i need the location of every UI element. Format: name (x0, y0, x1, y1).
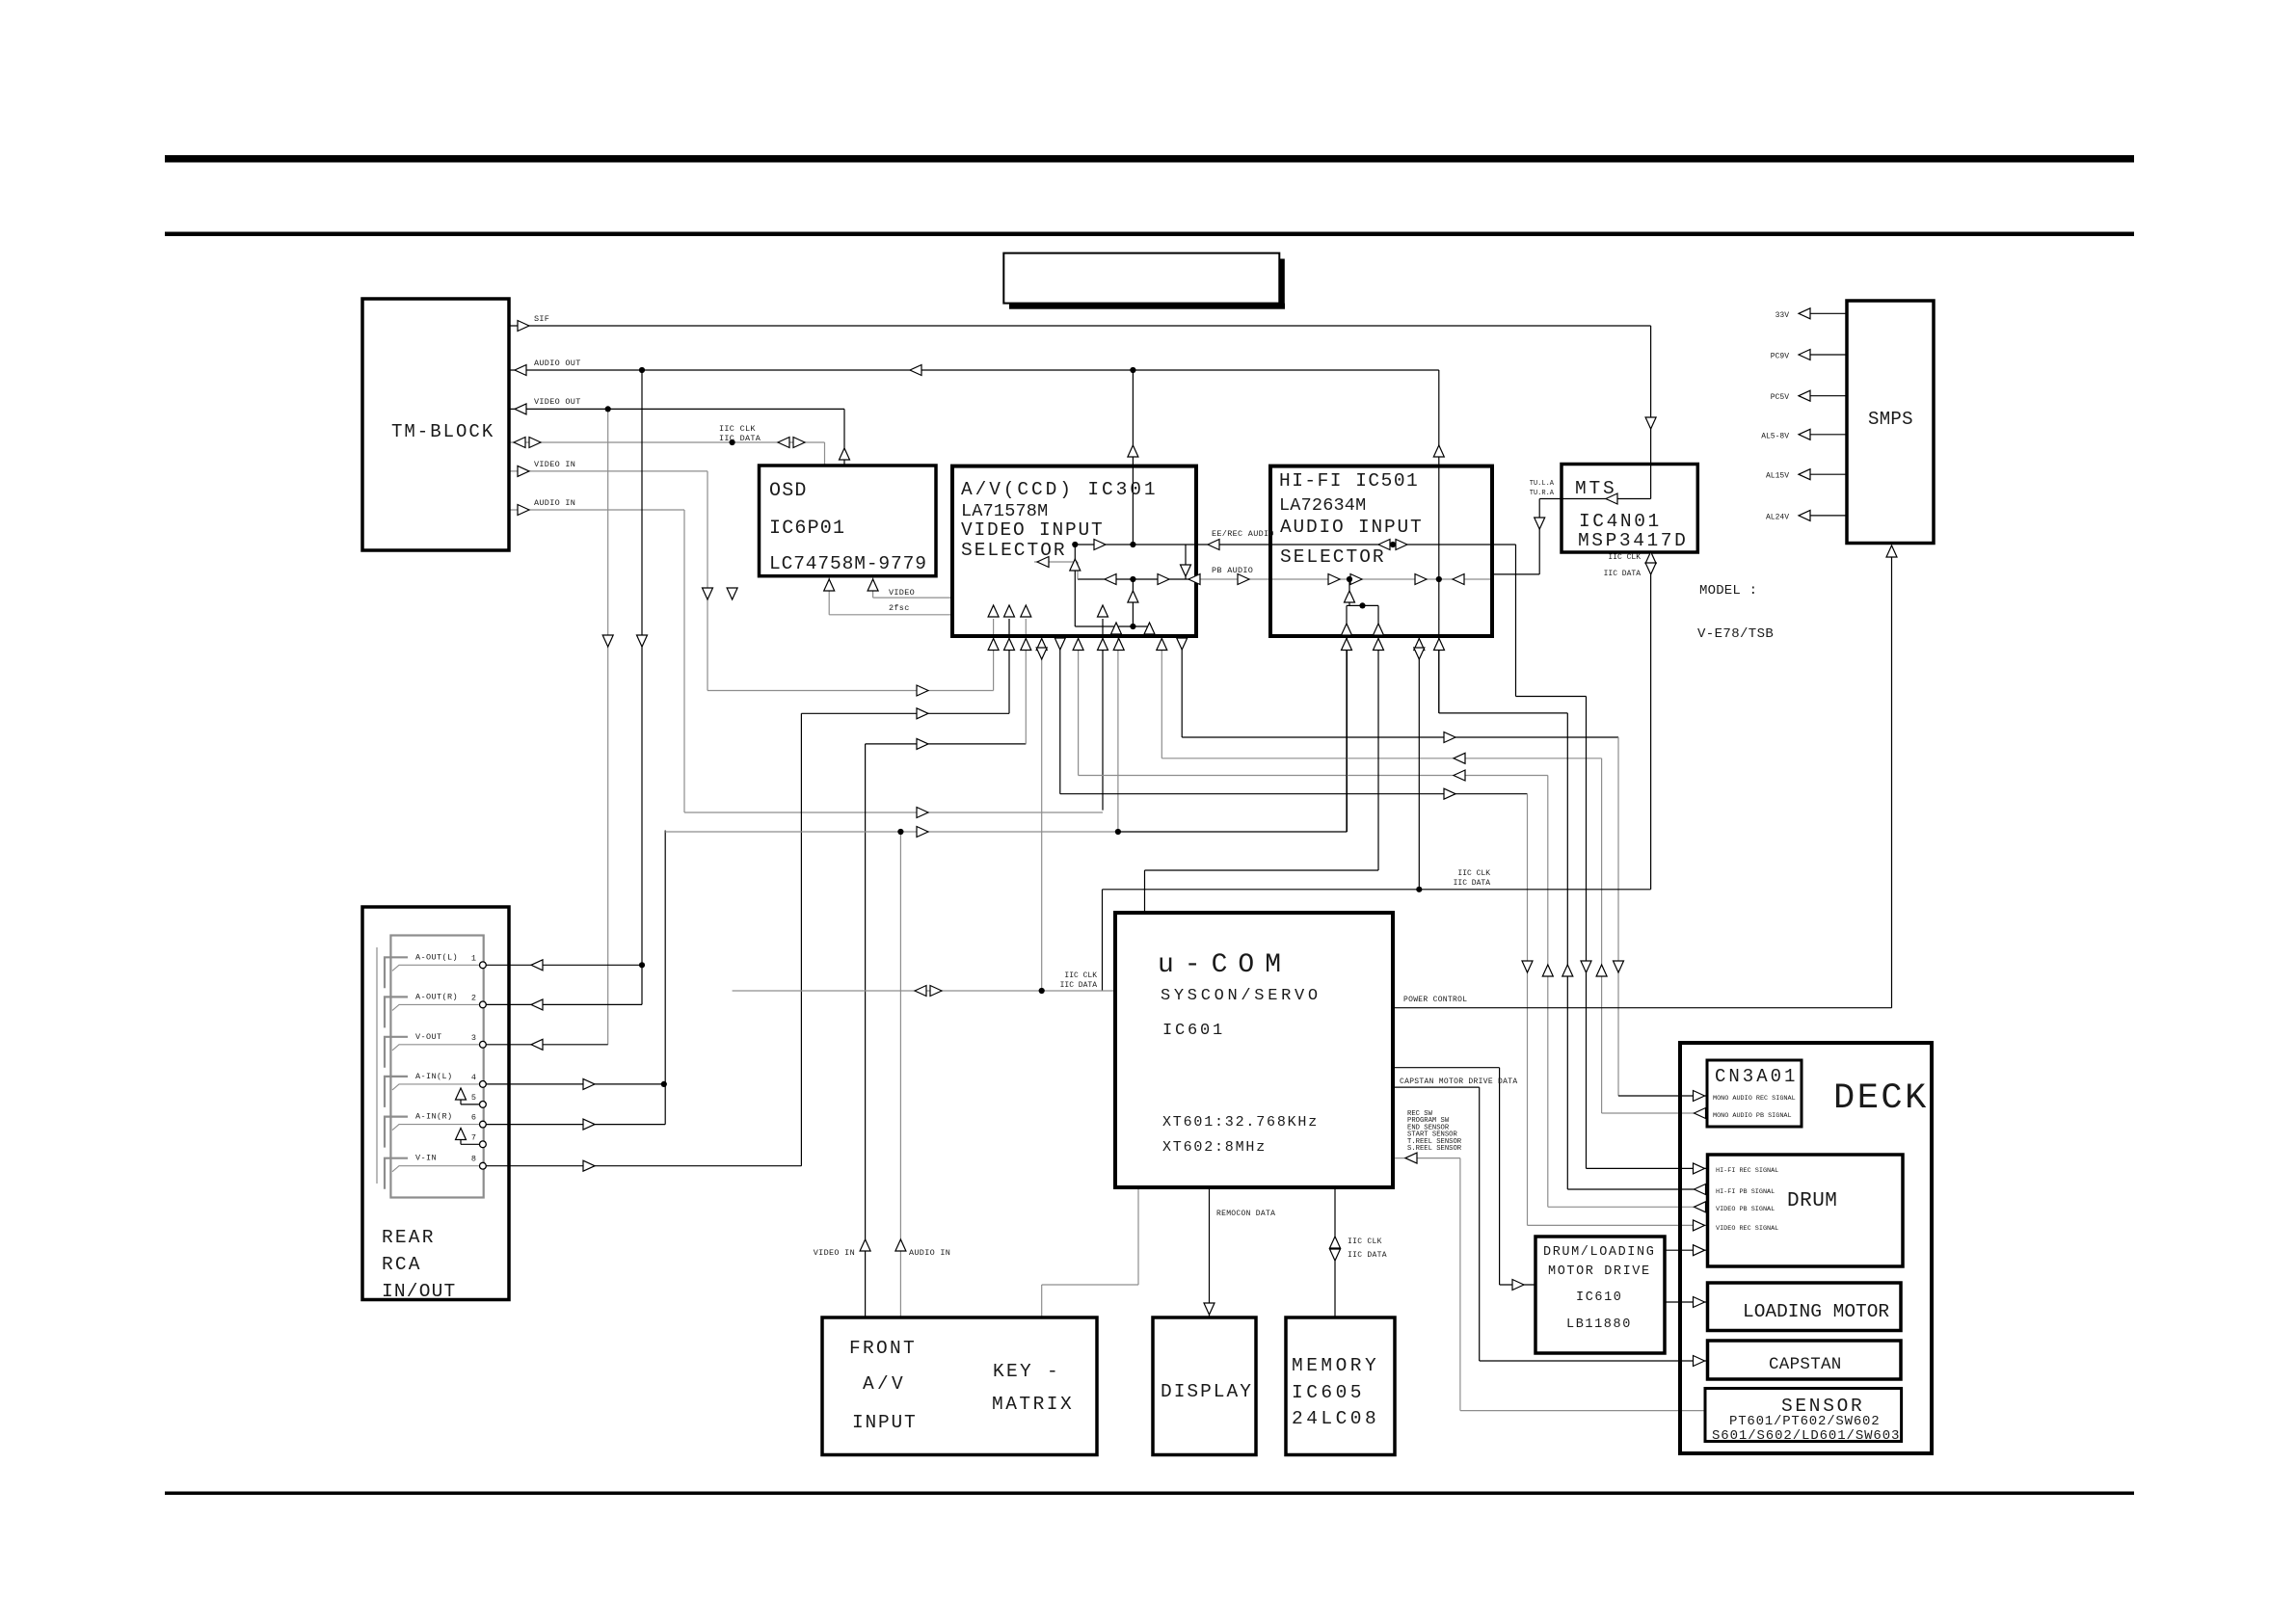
svg-text:3: 3 (471, 1033, 476, 1043)
svg-text:5: 5 (471, 1093, 476, 1103)
svg-text:AL24V: AL24V (1766, 513, 1789, 521)
svg-text:SYSCON/SERVO: SYSCON/SERVO (1161, 987, 1322, 1005)
svg-text:SELECTOR: SELECTOR (961, 540, 1067, 561)
svg-text:24LC08: 24LC08 (1292, 1408, 1379, 1429)
svg-text:IC610: IC610 (1576, 1290, 1623, 1305)
svg-text:MEMORY: MEMORY (1292, 1355, 1379, 1376)
svg-text:LA71578M: LA71578M (961, 501, 1048, 521)
svg-text:IIC CLK: IIC CLK (1457, 869, 1490, 878)
svg-text:A/V(CCD) IC301: A/V(CCD) IC301 (961, 479, 1158, 500)
svg-text:MOTOR DRIVE: MOTOR DRIVE (1548, 1264, 1651, 1279)
svg-text:AL5-8V: AL5-8V (1761, 432, 1789, 440)
svg-text:S.REEL SENSOR: S.REEL SENSOR (1407, 1145, 1462, 1153)
svg-text:SIF: SIF (534, 314, 549, 324)
svg-text:IIC DATA: IIC DATA (1348, 1251, 1387, 1260)
svg-text:MATRIX: MATRIX (992, 1394, 1074, 1415)
svg-text:PC5V: PC5V (1771, 393, 1789, 402)
svg-text:PT601/PT602/SW602: PT601/PT602/SW602 (1729, 1414, 1880, 1429)
svg-text:IIC DATA: IIC DATA (1060, 981, 1098, 990)
svg-text:KEY -: KEY - (993, 1361, 1060, 1382)
svg-text:POWER CONTROL: POWER CONTROL (1403, 996, 1467, 1004)
svg-text:33V: 33V (1775, 311, 1790, 320)
svg-text:XT601:32.768KHz: XT601:32.768KHz (1162, 1114, 1319, 1131)
svg-text:HI-FI PB SIGNAL: HI-FI PB SIGNAL (1716, 1188, 1775, 1196)
svg-text:AL15V: AL15V (1766, 472, 1789, 481)
svg-text:MODEL :: MODEL : (1699, 583, 1757, 599)
svg-text:2fsc: 2fsc (889, 603, 910, 613)
svg-text:VIDEO: VIDEO (889, 588, 915, 598)
svg-text:XT602:8MHz: XT602:8MHz (1162, 1139, 1267, 1156)
svg-text:DISPLAY: DISPLAY (1161, 1381, 1253, 1402)
svg-text:VIDEO IN: VIDEO IN (814, 1248, 855, 1258)
svg-text:7: 7 (471, 1132, 476, 1142)
svg-text:SELECTOR: SELECTOR (1280, 546, 1386, 568)
svg-text:IC605: IC605 (1292, 1382, 1365, 1403)
svg-text:V-OUT: V-OUT (415, 1032, 442, 1042)
svg-text:VIDEO IN: VIDEO IN (534, 460, 575, 469)
svg-text:LB11880: LB11880 (1566, 1317, 1632, 1332)
svg-text:S601/S602/LD601/SW603: S601/S602/LD601/SW603 (1712, 1428, 1900, 1444)
svg-text:A-IN(R): A-IN(R) (415, 1112, 453, 1122)
svg-text:IC6P01: IC6P01 (769, 518, 845, 540)
svg-text:IN/OUT: IN/OUT (382, 1281, 456, 1302)
svg-text:LOADING MOTOR: LOADING MOTOR (1743, 1301, 1889, 1322)
svg-text:u-COM: u-COM (1158, 950, 1292, 980)
svg-text:IIC CLK: IIC CLK (1064, 971, 1097, 980)
svg-text:HI-FI IC501: HI-FI IC501 (1279, 470, 1419, 492)
svg-text:CAPSTAN MOTOR DRIVE DATA: CAPSTAN MOTOR DRIVE DATA (1400, 1078, 1517, 1086)
svg-text:IIC DATA: IIC DATA (719, 434, 761, 443)
svg-text:MONO AUDIO REC SIGNAL: MONO AUDIO REC SIGNAL (1713, 1095, 1796, 1103)
svg-text:A-OUT(R): A-OUT(R) (415, 992, 458, 1001)
svg-text:MSP3417D: MSP3417D (1578, 530, 1688, 551)
svg-text:IC4N01: IC4N01 (1579, 511, 1662, 532)
svg-text:AUDIO IN: AUDIO IN (909, 1248, 950, 1258)
svg-text:8: 8 (471, 1155, 476, 1164)
svg-text:MONO AUDIO PB SIGNAL: MONO AUDIO PB SIGNAL (1713, 1112, 1792, 1120)
svg-text:1: 1 (471, 953, 476, 963)
svg-text:REAR: REAR (382, 1227, 436, 1248)
svg-text:TU.R.A: TU.R.A (1530, 490, 1555, 497)
svg-text:INPUT: INPUT (852, 1412, 918, 1433)
svg-text:PC9V: PC9V (1771, 353, 1789, 361)
svg-text:DECK: DECK (1833, 1078, 1929, 1119)
svg-text:CAPSTAN: CAPSTAN (1769, 1355, 1842, 1374)
svg-text:6: 6 (471, 1113, 476, 1123)
svg-text:EE/REC AUDIO: EE/REC AUDIO (1212, 529, 1274, 539)
svg-text:IIC CLK: IIC CLK (1608, 553, 1641, 562)
svg-text:IIC CLK: IIC CLK (719, 424, 756, 434)
svg-text:IIC DATA: IIC DATA (1604, 570, 1642, 578)
svg-text:HI-FI REC SIGNAL: HI-FI REC SIGNAL (1716, 1167, 1778, 1175)
svg-text:SMPS: SMPS (1868, 409, 1913, 430)
svg-text:A-OUT(L): A-OUT(L) (415, 952, 458, 962)
svg-text:IC601: IC601 (1162, 1022, 1225, 1040)
svg-text:LC74758M-9779: LC74758M-9779 (769, 553, 927, 574)
svg-text:2: 2 (471, 993, 476, 1002)
svg-text:DRUM/LOADING: DRUM/LOADING (1543, 1245, 1655, 1260)
svg-text:A-IN(L): A-IN(L) (415, 1072, 453, 1081)
svg-text:VIDEO INPUT: VIDEO INPUT (961, 519, 1105, 541)
svg-text:DRUM: DRUM (1787, 1190, 1837, 1212)
svg-text:4: 4 (471, 1073, 476, 1082)
svg-text:AUDIO IN: AUDIO IN (534, 498, 575, 508)
svg-text:LA72634M: LA72634M (1279, 495, 1366, 516)
svg-text:PB AUDIO: PB AUDIO (1212, 566, 1253, 575)
svg-text:OSD: OSD (769, 480, 808, 502)
svg-text:V-IN: V-IN (415, 1154, 437, 1163)
svg-text:AUDIO OUT: AUDIO OUT (534, 359, 581, 368)
svg-text:A/V: A/V (863, 1373, 906, 1395)
svg-text:AUDIO INPUT: AUDIO INPUT (1280, 517, 1424, 538)
svg-text:TU.L.A: TU.L.A (1530, 480, 1555, 488)
svg-text:FRONT: FRONT (849, 1338, 917, 1359)
svg-text:VIDEO OUT: VIDEO OUT (534, 397, 581, 407)
svg-text:IIC CLK: IIC CLK (1348, 1237, 1382, 1246)
svg-text:REMOCON DATA: REMOCON DATA (1216, 1210, 1275, 1218)
svg-text:VIDEO REC SIGNAL: VIDEO REC SIGNAL (1716, 1225, 1778, 1233)
svg-text:RCA: RCA (382, 1254, 422, 1275)
svg-text:VIDEO PB SIGNAL: VIDEO PB SIGNAL (1716, 1206, 1775, 1213)
svg-text:MTS: MTS (1575, 478, 1617, 499)
svg-text:CN3A01: CN3A01 (1715, 1066, 1798, 1087)
svg-text:V-E78/TSB: V-E78/TSB (1697, 626, 1774, 642)
svg-text:TM-BLOCK: TM-BLOCK (391, 421, 494, 442)
svg-text:IIC DATA: IIC DATA (1454, 879, 1491, 888)
